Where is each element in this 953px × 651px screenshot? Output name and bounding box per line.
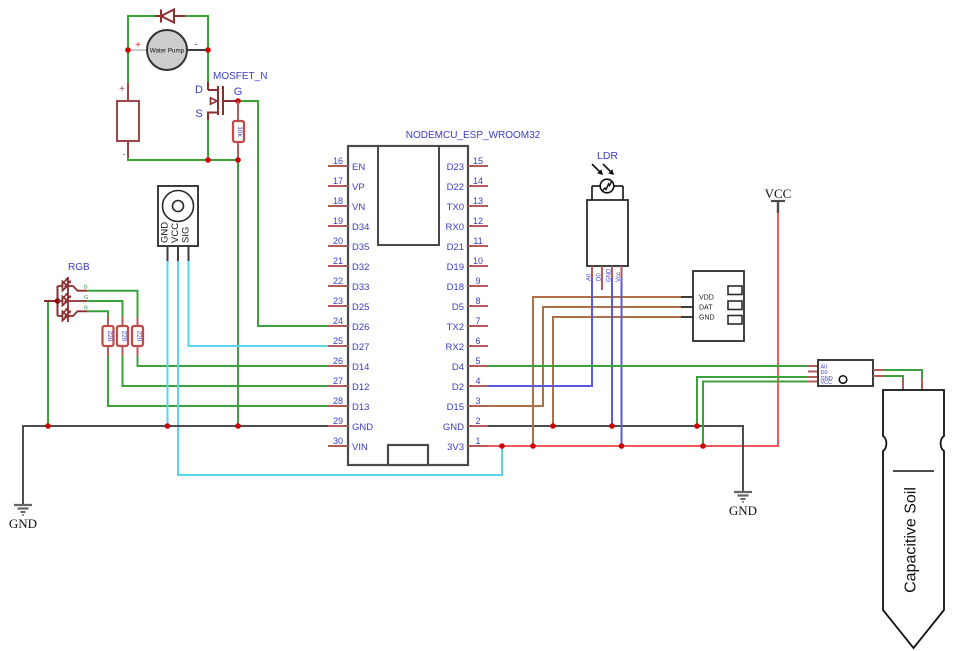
pin 24 D26 (left) [328,316,369,333]
svg-text:VCC: VCC [821,380,833,386]
wire 3V3 red [488,211,778,446]
wire RGB common stub [44,300,58,302]
svg-text:D4: D4 [452,362,464,373]
svg-text:+: + [119,84,125,95]
wire G to resistor R2 [87,301,123,317]
svg-text:VCC: VCC [170,223,181,243]
svg-text:TX0: TX0 [447,202,464,213]
sensor DHT box [681,271,744,341]
svg-text:MOSFET_N: MOSFET_N [213,71,267,82]
svg-text:Capacitive Soil: Capacitive Soil [903,487,920,593]
svg-text:B: B [84,285,88,291]
resistor R1 220 [103,317,114,356]
svg-text:22: 22 [333,276,343,286]
svg-text:VP: VP [352,182,365,193]
sensor Capacitive Soil probe [883,390,944,648]
node source rail S [205,157,211,163]
svg-text:NODEMCU_ESP_WROOM32: NODEMCU_ESP_WROOM32 [406,130,541,141]
wire pump loop left vertical [127,16,129,50]
svg-text:D2: D2 [452,382,464,393]
svg-text:1: 1 [475,436,480,446]
wire RGB common to GND rail [47,301,49,426]
svg-text:D: D [195,84,203,96]
pin 20 D35 (left) [328,236,369,253]
svg-text:GND: GND [729,503,757,518]
wire pump+ to battery+ [127,50,129,83]
svg-text:VCC: VCC [765,186,792,201]
power VCC symbol [765,186,792,213]
svg-text:D23: D23 [447,162,464,173]
svg-text:10: 10 [473,256,483,266]
wire GND rail left [23,426,330,504]
wire DHT VDD to 3V3 [533,297,681,446]
pin 13 TX0 (right) [447,196,488,213]
svg-text:GND: GND [352,422,373,433]
pin 27 D12 (left) [328,376,369,393]
wire diode left green [127,15,156,17]
svg-text:D32: D32 [352,262,369,273]
pin 30 VIN (left) [328,436,368,453]
svg-text:7: 7 [475,316,480,326]
pin 11 D21 (right) [447,236,488,253]
svg-text:GND: GND [160,222,171,243]
wire LDR A0 to D2 [488,278,592,386]
pin 17 VP (left) [328,176,365,193]
svg-text:19: 19 [333,216,343,226]
pin 2 GND (right) [443,416,488,433]
node pump - [205,47,211,53]
svg-text:EN: EN [352,162,365,173]
pin 12 RX0 (right) [446,216,488,233]
wire source rail down to GND rail [237,160,239,426]
led LED green element [58,292,88,307]
pin 22 D33 (left) [328,276,369,293]
svg-text:D33: D33 [352,282,369,293]
sensor soil module [808,360,883,386]
pin 23 D25 (left) [328,296,369,313]
pin 3 D15 (right) [447,396,488,413]
svg-text:21: 21 [333,256,343,266]
pin 28 D13 (left) [328,396,369,413]
svg-text:D27: D27 [352,342,369,353]
svg-text:RX2: RX2 [446,342,464,353]
wire R3 to D14 [138,356,331,366]
node GND LDR [609,423,615,429]
svg-text:28: 28 [333,396,343,406]
svg-text:6: 6 [475,336,480,346]
pin 26 D14 (left) [328,356,369,373]
svg-text:S: S [195,108,202,120]
node gate G [235,98,241,104]
pin 21 D32 (left) [328,256,369,273]
svg-text:8: 8 [475,296,480,306]
wire mosfet source down [207,119,209,160]
svg-text:DAT: DAT [699,305,713,312]
svg-text:24: 24 [333,316,343,326]
svg-text:RGB: RGB [68,262,90,273]
svg-text:220: 220 [136,331,143,342]
svg-text:30: 30 [333,436,343,446]
node 3V3 DHT VDD [530,443,536,449]
svg-text:+: + [135,40,141,51]
resistor R3 220 [132,317,143,356]
sensor LDR [587,150,629,290]
node 3V3 soil [700,443,706,449]
svg-text:Water Pump: Water Pump [150,48,185,55]
svg-text:20: 20 [333,236,343,246]
led RGB common bus [57,286,59,316]
led LED blue element [58,277,88,292]
svg-text:14: 14 [473,176,483,186]
node source rail R [235,157,241,163]
ground GND right [734,492,752,502]
svg-text:220: 220 [106,331,113,342]
node rail mosfet branch [235,423,241,429]
svg-text:4: 4 [475,376,480,386]
svg-text:LDR: LDR [597,150,618,162]
svg-text:G: G [234,86,243,98]
wire GND right rail [488,426,743,491]
svg-text:3: 3 [475,396,480,406]
svg-text:GND: GND [443,422,464,433]
pin 19 D34 (left) [328,216,369,233]
svg-text:D26: D26 [352,322,369,333]
transistor Q1 MOSFET_N [195,71,267,120]
node 3V3 servo [499,443,505,449]
wire pump- down to mosfet drain [207,15,209,82]
pin 6 RX2 (right) [446,336,488,353]
svg-text:GND: GND [699,315,715,322]
svg-text:D19: D19 [447,262,464,273]
pin 15 D23 (right) [447,156,488,173]
wire B to resistor R3 [87,291,138,317]
svg-text:TX2: TX2 [447,322,464,333]
wire DHT DAT to D15 [488,307,681,406]
node pump + [125,47,131,53]
wire R1 to D13 [108,356,330,406]
wire R to resistor R1 [87,311,108,317]
svg-text:10k: 10k [236,126,243,137]
node GND soil [694,423,700,429]
pin 18 VN (left) [328,196,365,213]
svg-text:15: 15 [473,156,483,166]
pin 29 GND (left) [328,416,373,433]
node rail servo GND [165,423,171,429]
wire battery- to source rail [128,157,238,160]
probe pin left [902,379,904,403]
svg-text:26: 26 [333,356,343,366]
node 3V3 LDR [619,443,625,449]
svg-text:-: - [195,39,198,49]
diode D1 [155,10,185,23]
wire soil module to probe left [883,376,903,379]
battery BT1 [117,83,139,159]
svg-text:VIN: VIN [352,442,368,453]
pin 16 EN (left) [328,156,365,173]
ground GND left [14,505,32,515]
wire LDR GND to rail [611,278,613,426]
wire DHT GND to rail [553,317,681,426]
svg-text:9: 9 [475,276,480,286]
wire servo GND to rail [167,261,169,426]
svg-text:5: 5 [475,356,480,366]
svg-text:D13: D13 [352,402,369,413]
probe pin right [921,379,923,403]
connector servo [158,186,198,263]
svg-text:27: 27 [333,376,343,386]
svg-text:GND: GND [9,516,37,531]
pin 5 D4 (right) [452,356,488,373]
node GND DHT [550,423,556,429]
pin 9 D18 (right) [447,276,488,293]
wire soil A0 to D4 [488,365,808,367]
led LED red element [58,307,88,322]
svg-text:D35: D35 [352,242,369,253]
svg-text:25: 25 [333,336,343,346]
wire R2 to D12 [123,356,331,386]
wire soil VCC branch [703,382,808,447]
pin 25 D27 (left) [328,336,369,353]
pin 1 3V3 (right) [447,436,488,453]
motor Water Pump [130,30,207,70]
wire servo SIG to D27 [189,261,331,346]
pin 4 D2 (right) [452,376,488,393]
wire soil GND branch [697,377,808,426]
svg-text:D5: D5 [452,302,464,313]
svg-text:3V3: 3V3 [447,442,464,453]
node rail RGB [45,423,51,429]
node RGB common [55,298,61,304]
svg-text:29: 29 [333,416,343,426]
svg-text:16: 16 [333,156,343,166]
pin 10 D19 (right) [447,256,488,273]
svg-text:SIG: SIG [181,227,192,243]
pin 7 TX2 (right) [447,316,488,333]
svg-text:D25: D25 [352,302,369,313]
module NODEMCU_ESP_WROOM32 body [348,130,541,465]
svg-text:11: 11 [473,236,482,246]
svg-text:18: 18 [333,196,343,206]
svg-text:2: 2 [475,416,480,426]
svg-text:D15: D15 [447,402,464,413]
svg-text:D21: D21 [447,242,464,253]
svg-text:VDD: VDD [699,295,714,302]
wire LDR Vcc to 3V3 [621,278,623,446]
svg-text:RX0: RX0 [446,222,464,233]
svg-text:13: 13 [473,196,483,206]
svg-text:17: 17 [333,176,343,186]
pin 8 D5 (right) [452,296,488,313]
svg-text:12: 12 [473,216,483,226]
wire soil module to probe right [883,370,922,379]
svg-text:D14: D14 [352,362,369,373]
svg-text:-: - [123,149,126,159]
wire diode right green [183,15,209,17]
svg-text:D18: D18 [447,282,464,293]
pin 14 D22 (right) [447,176,488,193]
wire gate to D26 [238,101,330,326]
resistor R4 10k [233,101,244,160]
resistor R2 220 [117,317,128,356]
wire servo VCC to 3V3 [178,261,502,475]
svg-text:D22: D22 [447,182,464,193]
svg-text:220: 220 [121,331,128,342]
svg-text:D34: D34 [352,222,369,233]
svg-text:23: 23 [333,296,343,306]
svg-text:D12: D12 [352,382,369,393]
svg-text:VN: VN [352,202,365,213]
